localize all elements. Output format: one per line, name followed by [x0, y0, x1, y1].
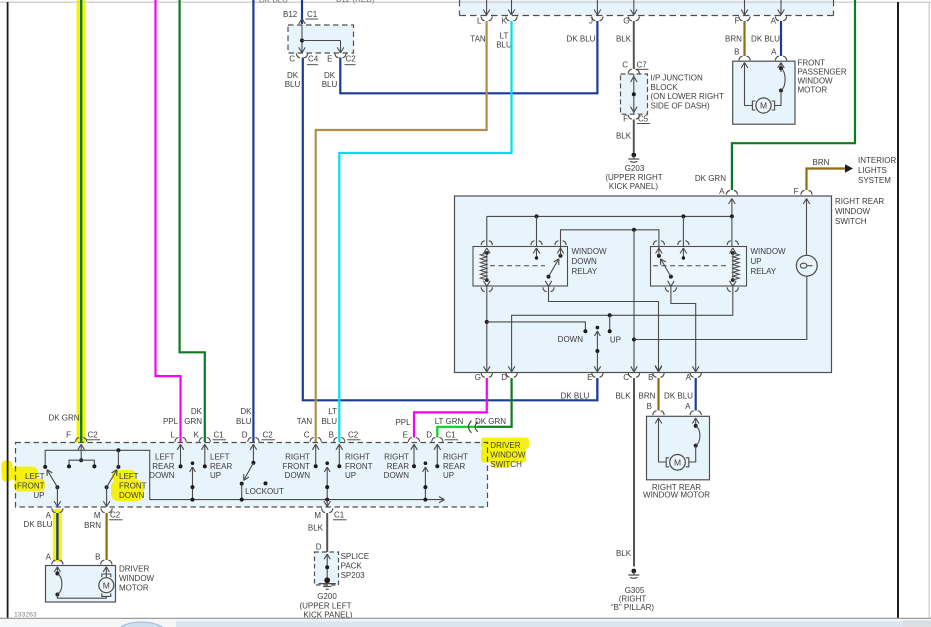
svg-text:BLK: BLK	[308, 524, 324, 533]
svg-text:REAR: REAR	[210, 462, 232, 471]
svg-text:FRONT: FRONT	[282, 462, 310, 471]
svg-text:INTERIOR: INTERIOR	[858, 156, 896, 165]
svg-text:C1: C1	[446, 431, 457, 440]
svg-text:(UPPER RIGHT: (UPPER RIGHT	[605, 173, 662, 182]
svg-text:D: D	[316, 543, 322, 552]
svg-text:M: M	[94, 511, 101, 520]
svg-text:DK BLU: DK BLU	[561, 392, 590, 401]
svg-text:PPL: PPL	[163, 417, 179, 426]
svg-text:C7: C7	[637, 61, 648, 70]
svg-text:BLU: BLU	[496, 41, 512, 50]
svg-text:C1: C1	[334, 511, 345, 520]
svg-text:LEFT: LEFT	[119, 472, 139, 481]
svg-text:SYSTEM: SYSTEM	[858, 176, 891, 185]
svg-text:DK: DK	[191, 407, 203, 416]
svg-text:RIGHT: RIGHT	[345, 453, 370, 462]
svg-text:F: F	[735, 17, 740, 26]
svg-text:DK BLU: DK BLU	[259, 0, 288, 5]
svg-text:UP: UP	[751, 257, 762, 266]
svg-text:BRN: BRN	[813, 158, 830, 167]
svg-text:C: C	[622, 61, 628, 70]
svg-text:DOWN: DOWN	[285, 471, 311, 480]
svg-text:WINDOW MOTOR: WINDOW MOTOR	[643, 491, 710, 500]
svg-text:B: B	[95, 553, 100, 562]
svg-text:DK BLU: DK BLU	[24, 520, 53, 529]
svg-text:LEFT: LEFT	[210, 453, 230, 462]
svg-text:UP: UP	[210, 471, 221, 480]
svg-text:LT: LT	[328, 407, 337, 416]
svg-text:G: G	[623, 17, 629, 26]
svg-text:M: M	[314, 511, 321, 520]
svg-text:SWITCH: SWITCH	[835, 217, 867, 226]
svg-text:FRONT: FRONT	[17, 482, 45, 491]
svg-text:F: F	[623, 115, 628, 124]
svg-text:BLU: BLU	[236, 417, 252, 426]
svg-text:DK BLU: DK BLU	[664, 392, 693, 401]
svg-text:“B” PILLAR): “B” PILLAR)	[611, 603, 654, 612]
svg-text:DK: DK	[324, 71, 336, 80]
svg-text:E: E	[327, 55, 332, 64]
svg-text:B12 (RED): B12 (RED)	[336, 0, 375, 4]
svg-text:WINDOW: WINDOW	[835, 207, 871, 216]
svg-text:WINDOW: WINDOW	[572, 247, 608, 256]
svg-text:M: M	[103, 580, 110, 590]
svg-text:C: C	[623, 373, 629, 382]
svg-text:RIGHT: RIGHT	[443, 453, 468, 462]
svg-text:LIGHTS: LIGHTS	[858, 166, 887, 175]
svg-text:G200: G200	[317, 592, 337, 601]
svg-text:J: J	[589, 17, 593, 26]
svg-text:UP: UP	[33, 491, 44, 500]
svg-text:C4: C4	[308, 55, 319, 64]
svg-text:UP: UP	[345, 471, 356, 480]
svg-text:DK BLU: DK BLU	[751, 35, 780, 44]
svg-text:B: B	[734, 48, 739, 57]
svg-text:E: E	[403, 431, 408, 440]
svg-text:C2: C2	[110, 511, 121, 520]
svg-text:DRIVER: DRIVER	[490, 441, 520, 450]
svg-text:C2: C2	[263, 431, 274, 440]
svg-text:D: D	[426, 431, 432, 440]
svg-text:F: F	[794, 187, 799, 196]
svg-text:SP203: SP203	[341, 571, 366, 580]
svg-text:L: L	[171, 431, 176, 440]
svg-text:FRONT: FRONT	[119, 482, 147, 491]
svg-text:DRIVER: DRIVER	[119, 565, 149, 574]
svg-text:(UPPER LEFT: (UPPER LEFT	[299, 602, 351, 611]
svg-text:(ON LOWER RIGHT: (ON LOWER RIGHT	[651, 92, 724, 101]
svg-text:MOTOR: MOTOR	[798, 86, 828, 95]
svg-text:C2: C2	[348, 431, 359, 440]
svg-text:DOWN: DOWN	[149, 471, 175, 480]
svg-text:A: A	[686, 373, 692, 382]
svg-text:SPLICE: SPLICE	[341, 552, 369, 561]
svg-text:B: B	[648, 373, 653, 382]
svg-text:WINDOW: WINDOW	[490, 450, 526, 459]
svg-text:BLOCK: BLOCK	[651, 83, 679, 92]
svg-text:LEFT: LEFT	[25, 472, 45, 481]
svg-text:C: C	[289, 55, 295, 64]
svg-text:C1: C1	[307, 10, 318, 19]
svg-text:133263: 133263	[14, 612, 37, 619]
svg-text:PACK: PACK	[341, 562, 363, 571]
svg-text:FRONT: FRONT	[798, 59, 826, 68]
svg-text:BRN: BRN	[639, 392, 656, 401]
svg-text:RELAY: RELAY	[751, 267, 777, 276]
svg-text:FRONT: FRONT	[345, 462, 373, 471]
svg-text:K: K	[502, 17, 508, 26]
svg-text:C5: C5	[638, 115, 649, 124]
svg-text:TAN: TAN	[470, 35, 486, 44]
svg-text:DK GRN: DK GRN	[695, 174, 726, 183]
svg-text:A: A	[771, 17, 777, 26]
svg-text:REAR: REAR	[443, 462, 465, 471]
svg-text:BLK: BLK	[615, 392, 631, 401]
svg-text:L: L	[477, 17, 482, 26]
svg-text:A: A	[685, 402, 691, 411]
svg-text:B: B	[647, 402, 652, 411]
svg-text:DK: DK	[240, 407, 252, 416]
svg-text:M: M	[760, 101, 767, 111]
svg-text:PASSENGER: PASSENGER	[798, 68, 847, 77]
svg-text:I/P JUNCTION: I/P JUNCTION	[651, 74, 704, 83]
svg-text:LT: LT	[500, 32, 509, 41]
svg-text:RIGHT REAR: RIGHT REAR	[835, 197, 884, 206]
svg-text:DOWN: DOWN	[558, 335, 584, 344]
svg-text:RELAY: RELAY	[572, 267, 598, 276]
svg-text:LEFT: LEFT	[155, 453, 175, 462]
svg-text:WINDOW: WINDOW	[798, 77, 834, 86]
svg-text:SWITCH: SWITCH	[490, 460, 522, 469]
svg-text:K: K	[194, 431, 200, 440]
svg-text:E: E	[587, 373, 592, 382]
svg-text:REAR: REAR	[152, 462, 174, 471]
svg-text:F: F	[66, 431, 71, 440]
svg-text:RIGHT: RIGHT	[384, 453, 409, 462]
svg-text:C2: C2	[88, 431, 99, 440]
svg-text:UP: UP	[610, 336, 621, 345]
svg-text:GRN: GRN	[184, 417, 202, 426]
svg-text:DK BLU: DK BLU	[567, 35, 596, 44]
svg-text:PPL: PPL	[395, 418, 411, 427]
svg-text:G: G	[475, 373, 481, 382]
svg-text:DOWN: DOWN	[119, 491, 145, 500]
svg-text:BLK: BLK	[616, 35, 632, 44]
svg-text:DK GRN: DK GRN	[48, 414, 79, 423]
svg-text:DK GRN: DK GRN	[475, 417, 506, 426]
svg-text:SIDE OF DASH): SIDE OF DASH)	[651, 102, 710, 111]
svg-text:D: D	[501, 373, 507, 382]
svg-text:C1: C1	[214, 431, 225, 440]
svg-text:LT GRN: LT GRN	[435, 417, 464, 426]
svg-text:KICK PANEL): KICK PANEL)	[609, 182, 659, 191]
svg-text:A: A	[46, 553, 52, 562]
svg-text:BRN: BRN	[725, 35, 742, 44]
svg-text:A: A	[719, 187, 725, 196]
svg-text:A: A	[771, 48, 777, 57]
svg-text:BLU: BLU	[285, 80, 301, 89]
svg-text:BLK: BLK	[616, 132, 632, 141]
svg-text:G203: G203	[625, 164, 645, 173]
svg-text:UP: UP	[443, 471, 454, 480]
svg-text:B: B	[329, 431, 334, 440]
svg-text:DK: DK	[287, 71, 299, 80]
svg-text:BRN: BRN	[84, 521, 101, 530]
svg-text:A: A	[46, 511, 52, 520]
svg-text:REAR: REAR	[387, 462, 409, 471]
svg-text:M: M	[674, 458, 681, 468]
svg-text:B12: B12	[283, 10, 298, 19]
svg-text:LOCKOUT: LOCKOUT	[245, 487, 284, 496]
svg-text:DOWN: DOWN	[572, 257, 598, 266]
svg-text:C2: C2	[346, 55, 357, 64]
svg-text:C: C	[304, 431, 310, 440]
svg-text:DOWN: DOWN	[384, 471, 410, 480]
svg-text:BLU: BLU	[322, 80, 338, 89]
svg-text:BLU: BLU	[321, 417, 337, 426]
svg-text:TAN: TAN	[297, 417, 313, 426]
svg-text:WINDOW: WINDOW	[119, 574, 155, 583]
svg-text:D: D	[242, 431, 248, 440]
svg-text:WINDOW: WINDOW	[751, 247, 787, 256]
svg-text:BLK: BLK	[616, 549, 632, 558]
svg-text:MOTOR: MOTOR	[119, 584, 149, 593]
svg-text:RIGHT: RIGHT	[285, 453, 310, 462]
